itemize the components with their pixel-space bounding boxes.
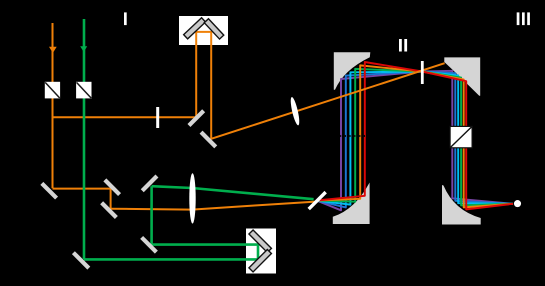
detector dot <box>514 200 521 207</box>
beam red <box>317 62 514 209</box>
beam blue <box>317 72 514 208</box>
arrow nick blue <box>344 135 347 137</box>
beam cyan <box>317 72 514 205</box>
wire orange horizontal y117 <box>53 116 197 118</box>
wire orange diagonal to slit <box>211 63 444 139</box>
beamsplitter cube BS3 <box>450 126 472 147</box>
wire green retro vertical <box>257 245 260 261</box>
mirror M1 <box>187 109 205 127</box>
wire orange retro top <box>195 31 212 33</box>
wire orange short down <box>110 189 112 209</box>
arrow nick green <box>353 135 356 137</box>
lens L2 (tilted) <box>289 96 301 126</box>
wire orange input vertical <box>52 23 54 188</box>
curved mirror CM2 (bottom-left concave) <box>333 183 370 225</box>
wire orange delay down-leg <box>210 32 212 140</box>
arrow nick red <box>363 135 366 137</box>
wire green to grating <box>152 186 314 199</box>
curved mirror CM3 (top-right concave) <box>444 57 480 95</box>
wire green up-leg <box>150 186 153 246</box>
lens L1 <box>189 173 195 223</box>
curved mirror CM4 (bottom-right concave) <box>442 185 481 225</box>
iris A1 <box>156 107 159 128</box>
mirror M8 <box>141 175 159 193</box>
label I <box>124 12 127 25</box>
arrow nick orange <box>358 135 361 137</box>
beam purple (grating to detector) <box>317 71 514 211</box>
mirror M6 <box>72 251 90 269</box>
retro bar RR2-top <box>249 230 271 252</box>
arrowhead green <box>80 46 87 52</box>
wire orange delay up-leg <box>195 32 197 118</box>
mirror M5 <box>100 201 118 219</box>
arrow nick purple <box>339 135 342 137</box>
retro bar RR1-left <box>184 18 206 39</box>
beamsplitter cube BS1 <box>45 82 60 99</box>
beamsplitter cube BS2 <box>76 82 91 99</box>
wire orange to grating <box>111 202 316 210</box>
arrow nick cyan <box>348 135 351 137</box>
wire green bottom horizontal <box>84 258 258 261</box>
mirror M7 <box>140 236 158 254</box>
slit S (Fourier plane) <box>421 61 424 84</box>
wire orange bottom horizontal <box>53 188 111 190</box>
mirror M2 <box>200 131 218 149</box>
mirror M3 <box>40 182 58 200</box>
label II <box>399 39 407 52</box>
retro bar RR2-bottom <box>249 249 271 271</box>
retroreflector box RR2 (right) <box>246 229 276 274</box>
retro bar RR1-right <box>204 19 224 39</box>
arrowhead orange <box>49 47 57 53</box>
grating G1 <box>308 191 327 210</box>
retroreflector box RR1 (top) <box>179 16 228 45</box>
wire green return horizontal <box>152 243 260 246</box>
label III <box>517 12 530 25</box>
curved mirror CM1 (top-left concave) <box>334 52 371 90</box>
wire green input vertical <box>83 19 86 259</box>
mirror M4 <box>103 178 121 196</box>
beam green2 <box>317 69 514 206</box>
beam orange2 <box>317 65 514 207</box>
